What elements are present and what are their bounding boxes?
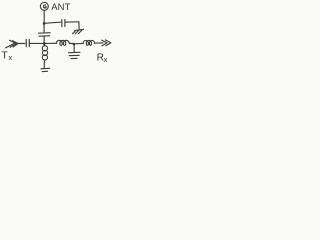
svg-text:x: x — [104, 55, 108, 64]
svg-text:x: x — [8, 53, 12, 62]
svg-text:ANT: ANT — [51, 2, 70, 13]
svg-text:T: T — [2, 50, 8, 61]
